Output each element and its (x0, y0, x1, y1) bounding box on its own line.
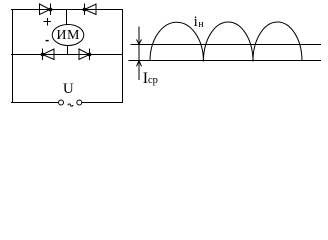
arrow up (137, 61, 142, 67)
node VD3 junction (41, 53, 44, 56)
dimension line Icp (138, 26, 140, 80)
diode VD3 (43, 49, 55, 60)
terminal right (77, 100, 82, 105)
label ~ (68, 104, 73, 106)
wire bottom left (11, 102, 59, 104)
current waveform humps (150, 22, 302, 62)
svg-text:U: U (63, 81, 74, 97)
arrow down (137, 40, 142, 45)
node VD2 anode junction (83, 8, 86, 11)
svg-text:iн: iн (194, 14, 205, 30)
wire middle (11, 54, 123, 56)
node VD4 junction (88, 53, 91, 56)
minus sign (46, 40, 49, 41)
motor M1 (ИМ) (52, 25, 84, 46)
terminal left (59, 100, 64, 105)
node VD1 cathode junction (49, 8, 52, 11)
diode VD4 (79, 49, 90, 60)
wire motor minus lead (67, 46, 69, 55)
axis upper (Icp level) (130, 44, 321, 46)
svg-text:Iср: Iср (143, 70, 158, 87)
plus sign (44, 21, 52, 23)
wire bottom right (82, 102, 123, 104)
wire motor plus lead (66, 9, 68, 25)
wire right (122, 9, 124, 103)
diode VD1 (40, 4, 51, 15)
axis lower (time axis) (128, 60, 321, 62)
wire left (12, 9, 14, 103)
wire top (11, 9, 123, 11)
diode VD2 (85, 4, 97, 15)
svg-text:ИМ: ИМ (56, 28, 80, 43)
